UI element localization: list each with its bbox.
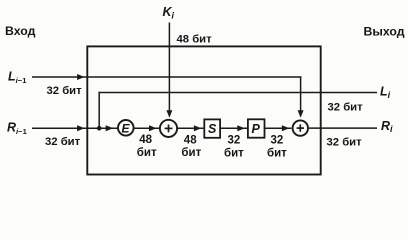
svg-text:48: 48 (184, 135, 197, 147)
wire E to XOR1 with arrow (134, 125, 159, 131)
round function box (87, 46, 320, 174)
label 32 bit (Ri-1) (45, 136, 81, 148)
wire S to P with arrow (220, 125, 247, 131)
node junction on Ri-1 (97, 126, 102, 131)
block S s-boxes (204, 119, 220, 137)
svg-text:бит: бит (267, 147, 287, 159)
label 32 bit (S out) (224, 135, 244, 160)
label Vhod (input) (5, 24, 36, 38)
svg-text:32 бит: 32 бит (47, 85, 83, 97)
svg-text:бит: бит (137, 147, 157, 159)
label 32 bit (Ri) (327, 136, 363, 148)
wire branch up from junction (98, 92, 100, 129)
wire Li-1 drop to XOR2 with arrow (298, 77, 304, 118)
svg-text:32 бит: 32 бит (328, 102, 364, 114)
XOR gate 2 (293, 120, 308, 135)
svg-text:48 бит: 48 бит (177, 33, 213, 45)
label Li-1 (8, 70, 27, 85)
label Ki (163, 5, 175, 20)
label Ri (381, 119, 393, 134)
svg-text:Выход: Выход (364, 25, 405, 39)
svg-text:Вход: Вход (5, 24, 36, 38)
svg-text:32 бит: 32 бит (327, 136, 363, 148)
label 32 bit (Li) (328, 102, 364, 114)
label 32 bit (Li-1) (47, 85, 83, 97)
wire Li output horizontal (99, 92, 378, 94)
svg-text:бит: бит (181, 147, 201, 159)
label 32 bit (P out) (267, 135, 287, 160)
svg-text:32: 32 (271, 135, 284, 147)
block E expansion (118, 120, 134, 136)
wire Ri output (309, 127, 377, 129)
wire Ki vertical with arrow (166, 23, 172, 118)
label Ri-1 (7, 121, 28, 136)
svg-text:S: S (208, 122, 217, 136)
label 48 bit (key) (177, 33, 213, 45)
svg-text:48: 48 (139, 134, 152, 146)
wire XOR1 to S with arrow (178, 125, 204, 131)
wire Li-1 horizontal with arrow (32, 74, 301, 80)
block P permutation (248, 119, 265, 137)
label 48 bit (E out) (137, 134, 157, 159)
XOR gate 1 (160, 120, 177, 137)
svg-text:P: P (252, 122, 261, 136)
svg-text:32: 32 (228, 135, 241, 147)
label Vyhod (output) (364, 25, 405, 39)
svg-text:E: E (122, 122, 131, 136)
svg-text:бит: бит (224, 147, 244, 159)
label 48 bit (XOR1 out) (181, 135, 201, 160)
wire Ri-1 horizontal with arrows (32, 125, 117, 131)
wire P to XOR2 with arrow (265, 125, 292, 131)
label Li (380, 85, 391, 101)
svg-text:32 бит: 32 бит (45, 136, 81, 148)
